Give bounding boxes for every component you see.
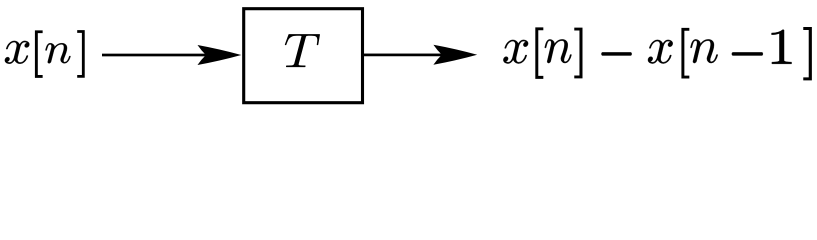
wire: input arrow shaft from x[n] into block T bbox=[102, 54, 230, 57]
output label digit 1 bbox=[772, 30, 792, 64]
output label glyph x (first term) bbox=[503, 40, 528, 64]
output label glyph n (second term) bbox=[690, 39, 717, 63]
output label bracket [ (second term) bbox=[682, 28, 689, 78]
output label bracket ] (first term) bbox=[575, 28, 582, 78]
output label minus sign (inside bracket) bbox=[732, 52, 763, 55]
wire: output arrow shaft from block T to output label bbox=[363, 54, 467, 57]
output label glyph n (first term) bbox=[545, 39, 572, 63]
output label bracket [ (first term) bbox=[536, 28, 543, 79]
node: input signal label x[n] - glyph x bbox=[5, 41, 30, 64]
output label minus sign (between terms) bbox=[601, 52, 631, 55]
input label glyph n bbox=[45, 43, 70, 63]
label T inside system block bbox=[285, 34, 320, 67]
input label bracket [ bbox=[35, 31, 42, 78]
input label bracket ] bbox=[78, 31, 85, 78]
block: system T rectangle bbox=[244, 9, 363, 103]
arrowhead of output arrow bbox=[433, 45, 477, 65]
output label glyph x (second term) bbox=[648, 40, 673, 64]
arrowhead of input arrow bbox=[198, 45, 242, 65]
output label bracket ] (second term) bbox=[804, 27, 812, 80]
